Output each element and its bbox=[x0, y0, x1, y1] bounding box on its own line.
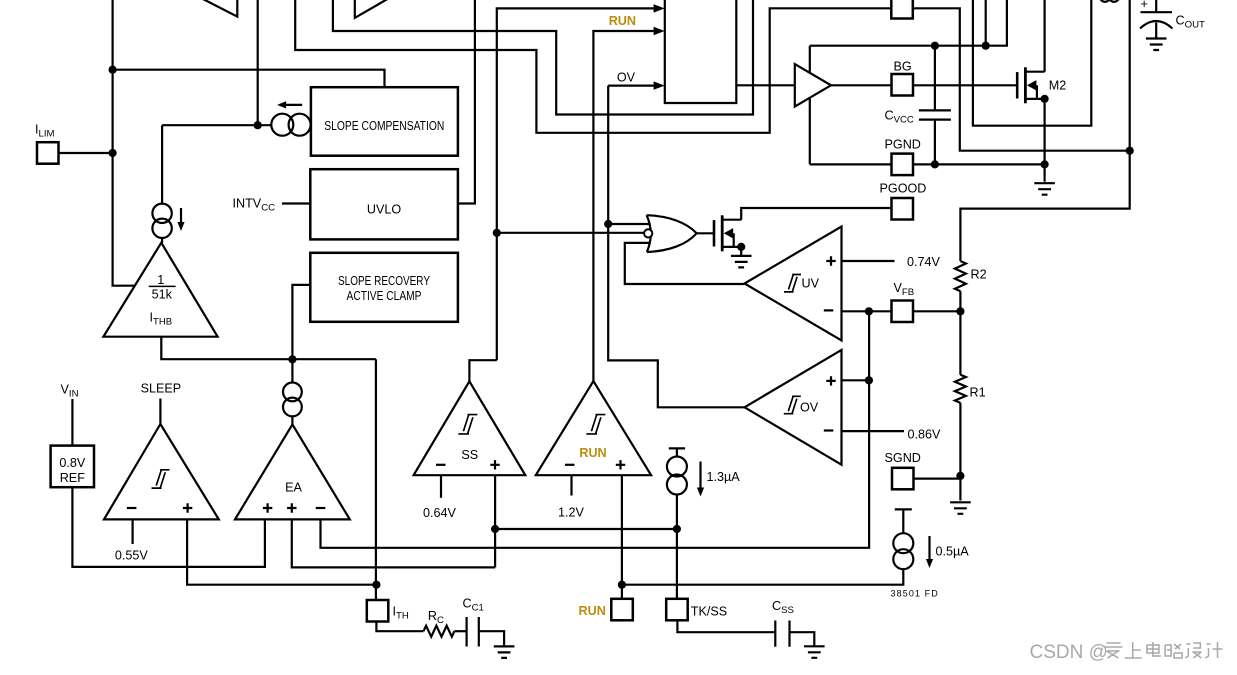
watermark CJK glyphs bbox=[1105, 642, 1223, 658]
gate NOR (PGOOD logic) bbox=[647, 215, 697, 252]
label - input SLEEP bbox=[127, 507, 136, 509]
node: FET source bbox=[737, 243, 745, 251]
svg-text:R2: R2 bbox=[971, 267, 987, 281]
block switching logic (cut at top) bbox=[665, 0, 737, 103]
wire: gate input 2 (SS) bbox=[497, 232, 644, 234]
svg-text:SGND: SGND bbox=[885, 451, 921, 465]
label - input SS bbox=[436, 464, 446, 466]
wire: M2 source down to PGND rail bbox=[1043, 99, 1045, 164]
symbol: hysteresis (SS) bbox=[458, 415, 477, 434]
svg-text:UV: UV bbox=[802, 277, 820, 291]
symbol: hysteresis (OV) bbox=[784, 396, 801, 413]
svg-text:51k: 51k bbox=[152, 288, 173, 302]
ground (PGOOD FET) bbox=[731, 256, 752, 268]
svg-text:REF: REF bbox=[60, 471, 85, 485]
label - input OV bbox=[824, 429, 834, 431]
wire: OV + to VFB node bbox=[842, 379, 869, 381]
label - input RUN bbox=[565, 464, 575, 466]
arrow: 1.3uA (down) bbox=[699, 462, 701, 489]
node: junction at x=257.7 bbox=[254, 121, 262, 129]
symbol: hysteresis (SLEEP) bbox=[152, 470, 170, 488]
wire: 1.3uA to track node bbox=[676, 495, 678, 530]
pin box VFB bbox=[892, 301, 914, 323]
wire: U-shaped link (cut at top) bbox=[973, 0, 1091, 126]
node: OV rail tap for PGOOD gate bbox=[604, 220, 612, 228]
wire: SLEEP stub to comparator bbox=[159, 399, 161, 425]
wire: BG pin to M2 gate bbox=[913, 84, 1017, 86]
wire: ILIM node to slope-comp current source bbox=[162, 124, 271, 126]
svg-text:0.86V: 0.86V bbox=[908, 427, 942, 441]
wire: VOUT down to R2 bbox=[960, 151, 1129, 261]
node: junction slope-comp feed bbox=[109, 66, 117, 74]
wire: SLEEP + input to ITH node bbox=[187, 519, 376, 584]
wire: PGND to ground bbox=[1043, 164, 1045, 181]
svg-text:M2: M2 bbox=[1049, 79, 1067, 93]
svg-text:SLOPE COMPENSATION: SLOPE COMPENSATION bbox=[324, 119, 444, 133]
svg-text:PGND: PGND bbox=[885, 138, 921, 152]
wire: R1 to SGND node bbox=[959, 403, 961, 476]
wire: FET source to ground bbox=[740, 247, 742, 255]
wire: INTVCC to UVLO bbox=[282, 202, 310, 204]
wire: ITH vertical bbox=[375, 359, 377, 600]
wire: gate input 1 (OV) bbox=[608, 223, 650, 225]
svg-text:1.3µA: 1.3µA bbox=[707, 470, 741, 484]
wire: EA - input to VFB bbox=[321, 311, 870, 548]
wire: EA + input 2 to SS/track node bbox=[292, 519, 495, 567]
pin box PGND bbox=[892, 154, 914, 176]
wire: staircase B (to top) bbox=[333, 0, 753, 115]
node: OV+ junction bbox=[865, 376, 873, 384]
label + input SLEEP bbox=[183, 503, 192, 512]
wire: SW pin to VOUT sense rail bbox=[914, 8, 1130, 150]
wire: FET drain to PGOOD pin bbox=[741, 208, 891, 220]
wire: gate output to pulldown FET bbox=[697, 232, 714, 234]
wire: ITHB output to ITH rail bbox=[161, 337, 376, 360]
transistor M2 (N-channel MOSFET) bbox=[1017, 67, 1044, 103]
arrowhead into logic box (OV) bbox=[654, 81, 665, 89]
partial triangle (cut top-left comparator) bbox=[203, 0, 237, 17]
ground (CSS) bbox=[804, 646, 825, 658]
wire: logic box to BG driver bbox=[736, 84, 795, 86]
pin box RUN bbox=[611, 599, 633, 621]
node: VOUT sense junction bbox=[1126, 147, 1134, 155]
wire: UVLO output up to top bbox=[458, 0, 475, 204]
wire: TK/SS to CSS bbox=[677, 620, 775, 632]
svg-text:0.64V: 0.64V bbox=[423, 506, 457, 520]
block SLOPE COMPENSATION bbox=[311, 87, 458, 156]
wire: SS output to vertical rail bbox=[469, 360, 496, 381]
node: 1.3uA / TK-SS junction bbox=[673, 525, 681, 533]
wire: SGND to ground bbox=[959, 476, 961, 501]
current source (slope compensation), two circles bbox=[271, 114, 293, 136]
op-amp ITHB (gain 1/51k) bbox=[103, 238, 217, 337]
svg-text:38501 FD: 38501 FD bbox=[891, 588, 939, 598]
ground (PGND) bbox=[1034, 183, 1055, 195]
node: EA tail / slope recovery junction bbox=[288, 355, 296, 363]
wire: OV rail down to OV comparator output bbox=[608, 86, 744, 408]
wire: down to ITHB current source bbox=[161, 125, 163, 203]
node: ILIM junction bbox=[109, 149, 117, 157]
current source 1.3uA bbox=[667, 457, 687, 477]
wire: SS - stub bbox=[440, 475, 442, 498]
wire: SS + input vertical bbox=[494, 475, 496, 567]
svg-text:0.5µA: 0.5µA bbox=[936, 544, 970, 558]
label - input EA bbox=[316, 507, 326, 509]
wire: driver output to BG pin bbox=[831, 84, 892, 86]
svg-text:CSDN @: CSDN @ bbox=[1030, 642, 1108, 663]
node: rail tap to top bbox=[982, 42, 990, 50]
pin box (cut, top) bbox=[891, 0, 913, 19]
wire: UV + to 0.74V bbox=[842, 260, 895, 262]
wire: CC1 to ground bbox=[479, 631, 504, 646]
pin box BG bbox=[892, 74, 914, 96]
wire: SGND pin to ground node bbox=[914, 478, 961, 480]
wire: driver top supply into triangle bbox=[809, 46, 811, 73]
svg-text:RUN: RUN bbox=[609, 14, 636, 28]
label + input UV bbox=[826, 256, 835, 265]
arrow: ITHB bias current (down) bbox=[180, 208, 182, 223]
wire: PGND pin to driver bottom bbox=[810, 163, 892, 165]
node: ITH junction bbox=[372, 581, 380, 589]
comparator SS bbox=[414, 381, 526, 475]
wire: to SLOPE COMPENSATION box top bbox=[113, 70, 385, 88]
svg-text:+: + bbox=[1141, 0, 1148, 11]
wire: ILIM pin to rail bbox=[59, 152, 113, 154]
current source 0.5uA bbox=[893, 533, 913, 553]
comparator UV bbox=[745, 227, 842, 341]
pin box ILIM bbox=[37, 142, 59, 164]
buffer BG driver bbox=[795, 64, 831, 107]
arrowhead into logic box (top) bbox=[654, 4, 665, 12]
label + input 1 EA bbox=[263, 503, 272, 512]
wire: OV into logic box bbox=[608, 84, 654, 86]
svg-text:BG: BG bbox=[894, 60, 912, 74]
wire: RUN - stub bbox=[570, 475, 572, 495]
resistor RC bbox=[424, 626, 455, 637]
wire: VOUT rail from top bbox=[1129, 0, 1131, 151]
wire: 0.8V REF to EA + input bbox=[72, 487, 265, 567]
wire: left rail x=112.6 from top, down to ITHB amp input bbox=[113, 0, 135, 286]
pin box PGOOD bbox=[892, 198, 914, 220]
node: SGND junction bbox=[956, 472, 964, 480]
wire: CSS to ground bbox=[790, 632, 815, 645]
wire: UV - to VFB pin bbox=[842, 310, 892, 312]
comparator SLEEP bbox=[104, 424, 219, 519]
wire: driver bottom to PGND rail bbox=[809, 98, 811, 165]
wire: PGND rail right bbox=[913, 163, 1045, 165]
pin box SGND bbox=[892, 468, 914, 490]
block SLOPE RECOVERY ACTIVE CLAMP bbox=[310, 253, 458, 322]
ground (SGND) bbox=[950, 502, 971, 514]
wire: RC to CC1 bbox=[454, 630, 466, 632]
wire: track node to 1.3uA source bbox=[495, 528, 677, 530]
inductor remnant (cut) bbox=[1101, 0, 1119, 2]
svg-text:1.2V: 1.2V bbox=[558, 506, 585, 520]
comparator RUN bbox=[536, 381, 651, 475]
wire: M2 drain up (SW node) bbox=[1043, 0, 1045, 72]
svg-text:0.74V: 0.74V bbox=[907, 255, 941, 269]
svg-text:SLEEP: SLEEP bbox=[141, 382, 182, 396]
wire: divider middle bbox=[959, 291, 961, 374]
svg-text:0.8V: 0.8V bbox=[59, 456, 86, 470]
block 0.8V REF bbox=[51, 446, 94, 488]
wire: ITH to RC bbox=[376, 622, 423, 632]
node: SS rail to PGOOD gate bbox=[493, 229, 501, 237]
svg-text:ACTIVE CLAMP: ACTIVE CLAMP bbox=[347, 289, 422, 303]
wire: tap up to top edge bbox=[985, 0, 987, 46]
wire: down to TK/SS pin bbox=[676, 529, 678, 599]
label - input UV bbox=[824, 309, 834, 311]
wire: tail node to current source bbox=[291, 359, 293, 382]
wire: RUN + input down to RUN pin bbox=[621, 475, 623, 599]
block UVLO bbox=[310, 169, 458, 239]
wire: vertical from top to junction bbox=[257, 0, 259, 125]
svg-text:R1: R1 bbox=[970, 385, 986, 399]
label + input RUN bbox=[616, 460, 625, 469]
resistor R2 bbox=[955, 261, 966, 291]
svg-text:OV: OV bbox=[617, 71, 636, 85]
comparator OV bbox=[745, 350, 842, 465]
svg-text:SLOPE RECOVERY: SLOPE RECOVERY bbox=[338, 274, 430, 288]
wire: gate input 3 from UV comparator output bbox=[625, 243, 745, 284]
symbol: hysteresis (RUN) bbox=[586, 415, 605, 434]
partial triangle (cut second comparator) bbox=[355, 0, 388, 18]
wire: slope recovery to EA tail node bbox=[292, 285, 310, 360]
capacitor CVCC bbox=[919, 46, 951, 165]
wire: OV - to 0.86V bbox=[842, 430, 905, 432]
arrow: slope comp current direction (left) bbox=[285, 104, 302, 106]
current source 1.3uA supply bar bbox=[669, 448, 685, 456]
wire: 0.5uA to RUN pin node bbox=[622, 569, 903, 585]
wire: INTVCC rail (driver top) to upper right bbox=[810, 0, 1007, 46]
bubble (inverting input) bbox=[644, 229, 652, 237]
node: M2 source / PGND bbox=[1041, 160, 1049, 168]
transistor PGOOD pulldown (N-channel MOSFET) bbox=[714, 215, 741, 251]
capacitor CC1 bbox=[467, 617, 479, 647]
svg-text:UVLO: UVLO bbox=[367, 203, 401, 217]
svg-text:SS: SS bbox=[461, 448, 478, 462]
svg-text:EA: EA bbox=[285, 480, 302, 494]
ground (CC1) bbox=[494, 646, 515, 658]
node: CVCC bottom bbox=[931, 160, 939, 168]
svg-text:RUN: RUN bbox=[579, 446, 606, 460]
svg-text:1: 1 bbox=[157, 273, 164, 287]
node: divider junction bbox=[956, 307, 964, 315]
ground (COUT) bbox=[1146, 39, 1167, 51]
arrowhead into logic box (RUN) bbox=[654, 27, 665, 35]
svg-text:TK/SS: TK/SS bbox=[691, 605, 727, 619]
svg-text:OV: OV bbox=[800, 400, 819, 414]
label + input SS bbox=[490, 460, 499, 469]
node: CVCC top bbox=[931, 42, 939, 50]
wire: staircase C (to SW pin box) bbox=[295, 0, 891, 133]
node: M2 source junction bbox=[1041, 95, 1049, 103]
svg-text:0.55V: 0.55V bbox=[115, 548, 149, 562]
wire: SS output rail up to logic box bbox=[497, 8, 654, 360]
current source (ITHB bias) bbox=[152, 204, 171, 223]
node: SS/track junction bbox=[491, 525, 499, 533]
svg-text:RUN: RUN bbox=[579, 604, 606, 618]
node: RUN pin junction bbox=[618, 581, 626, 589]
wire: RUN output up to logic box bbox=[593, 31, 654, 381]
current source 0.5uA supply bar bbox=[895, 509, 912, 533]
wire: VFB pin to divider bbox=[913, 310, 960, 312]
current source (EA tail) bbox=[283, 383, 302, 402]
label + input OV bbox=[826, 376, 835, 385]
op-amp EA bbox=[235, 416, 350, 519]
symbol: hysteresis (UV) bbox=[784, 275, 801, 292]
node: VFB / UV- junction bbox=[865, 307, 873, 315]
arrow: 0.5uA (down) bbox=[928, 536, 930, 560]
wire: SLEEP - input stub bbox=[132, 519, 134, 544]
resistor R1 bbox=[955, 375, 966, 403]
pin box ITH bbox=[367, 600, 389, 622]
svg-text:PGOOD: PGOOD bbox=[880, 181, 927, 195]
label + input 2 EA bbox=[287, 503, 296, 512]
pin box TK/SS bbox=[666, 599, 688, 621]
capacitor CSS bbox=[775, 621, 789, 647]
wire: VIN to REF box bbox=[71, 399, 73, 446]
